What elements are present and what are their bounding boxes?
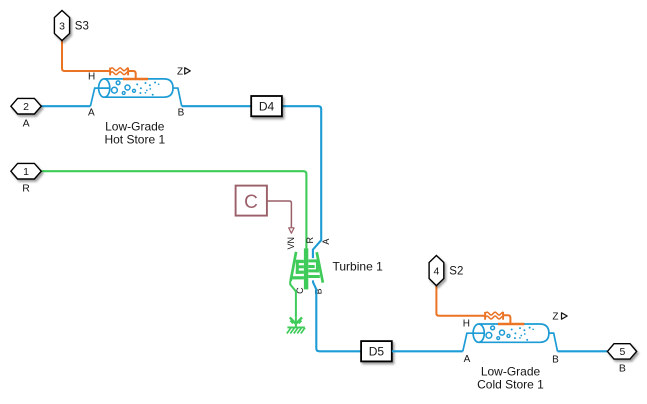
svg-text:Cold Store 1: Cold Store 1: [477, 378, 544, 392]
block Low-Grade Cold Store 1 (tank icon): [463, 324, 558, 351]
svg-text:A: A: [23, 117, 30, 129]
wire port2 to hot store port A: [41, 105, 90, 107]
svg-text:5: 5: [619, 346, 625, 358]
svg-text:2: 2: [23, 101, 29, 113]
cold store port H orange contact segment: [498, 323, 524, 326]
wire D4 to turbine port A: [282, 106, 321, 258]
wire S3 port3 to heater: [62, 40, 110, 71]
svg-text:1: 1: [23, 166, 29, 178]
svg-text:Low-Grade: Low-Grade: [481, 364, 541, 378]
svg-text:D5: D5: [369, 345, 385, 359]
heater element cold (resistive heater symbol): [485, 312, 503, 320]
svg-text:C: C: [244, 192, 258, 213]
svg-text:H: H: [88, 72, 95, 83]
port 4 (S2) hexagon: [429, 256, 444, 286]
arrowhead VN (hollow): [289, 228, 294, 233]
svg-text:Hot Store 1: Hot Store 1: [104, 133, 165, 147]
wire cold store port B to port5: [558, 350, 608, 352]
block Low-Grade Hot Store 1 (tank icon): [90, 79, 181, 106]
svg-text:R: R: [22, 182, 30, 194]
svg-text:3: 3: [59, 20, 65, 32]
svg-text:A: A: [464, 354, 471, 365]
block D5 connection label: [361, 341, 392, 361]
port 3 (S3) hexagon: [54, 11, 69, 41]
svg-text:Z: Z: [552, 311, 558, 322]
svg-text:B: B: [552, 354, 559, 365]
svg-text:4: 4: [433, 265, 439, 277]
heater element hot (resistive heater symbol): [110, 68, 128, 76]
rotational reference ground (green): [287, 317, 305, 333]
svg-text:H: H: [463, 319, 470, 330]
annotation triangle (hot store): [185, 68, 191, 74]
wire heater to hot store port H: [128, 71, 136, 79]
svg-text:Turbine 1: Turbine 1: [333, 259, 384, 273]
svg-text:D4: D4: [259, 100, 275, 114]
block D4 connection label: [251, 96, 282, 116]
svg-text:Z: Z: [177, 66, 183, 77]
wire hot store port B to D4: [182, 105, 252, 107]
svg-text:R: R: [305, 237, 315, 244]
wire D5 to cold store port A: [392, 350, 463, 352]
wire turbine port B to D5: [313, 280, 361, 351]
svg-text:A: A: [88, 107, 95, 118]
svg-text:S3: S3: [75, 21, 89, 33]
block C connection label: [236, 186, 267, 216]
svg-text:B: B: [619, 363, 626, 375]
port 5 (B) hexagon: [607, 344, 636, 359]
wire heater to cold store port H: [503, 315, 510, 324]
wire S2 port4 to heater: [436, 286, 485, 316]
wire port1 R to turbine port R: [41, 171, 306, 248]
svg-text:Low-Grade: Low-Grade: [105, 119, 165, 133]
svg-text:S2: S2: [449, 266, 463, 278]
wire C block to turbine port VN (physical signal): [267, 201, 292, 228]
svg-text:B: B: [178, 107, 185, 118]
annotation triangle (cold store): [562, 313, 568, 319]
port 2 (A) hexagon: [11, 98, 41, 114]
svg-text:VN: VN: [286, 237, 296, 250]
hot store port H orange contact segment: [123, 78, 148, 81]
svg-text:A: A: [321, 239, 331, 245]
port 1 (R) hexagon: [11, 163, 41, 179]
wire turbine port C to rotational reference: [290, 281, 296, 318]
block Turbine 1 (turbine icon): [291, 248, 320, 289]
